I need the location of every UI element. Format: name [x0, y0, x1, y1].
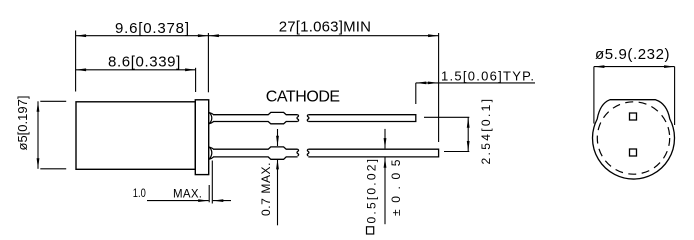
svg-text:1.0: 1.0	[133, 188, 146, 200]
end view: upper lead (square)	[630, 113, 637, 120]
dimension 0.7 MAX (lead kink)	[259, 129, 279, 225]
flange (1.0mm rim)	[195, 100, 208, 175]
svg-text:CATHODE: CATHODE	[266, 89, 340, 106]
end view: dashed body circle ø5	[597, 102, 669, 174]
svg-text:MAX.: MAX.	[173, 189, 202, 201]
dimension 27[1.063]MIN	[208, 19, 438, 38]
svg-text:0.5[0.02]: 0.5[0.02]	[364, 159, 378, 224]
upper lead segment 2 (after break)	[307, 115, 416, 122]
lower lead segment 1	[213, 147, 299, 159]
dimension 1.5[0.06]TYP. (lead tip offset)	[416, 69, 535, 105]
dimension 8.6[0.339]	[76, 53, 196, 71]
svg-text:1.5[0.06]TYP.: 1.5[0.06]TYP.	[441, 69, 534, 84]
LED body (side view, 8.6mm cylinder)	[76, 102, 195, 170]
lower lead exit flare	[209, 147, 214, 159]
lower lead segment 2 (after break)	[307, 149, 438, 157]
dimension 2.54[0.1] (lead pitch)	[424, 99, 493, 165]
end view: flange outline with flat top	[592, 100, 674, 179]
svg-text:2.54[0.1]: 2.54[0.1]	[479, 99, 493, 165]
end view: lower lead (square)	[630, 149, 637, 156]
svg-text:8.6[0.339]: 8.6[0.339]	[108, 53, 180, 70]
extension lines top	[76, 31, 439, 143]
dimension ø5[0.197]	[15, 96, 66, 169]
dimension □0.5[0.02] ±0.05 (lead cross-section)	[364, 129, 403, 234]
upper lead segment 1	[213, 112, 299, 123]
svg-text:ø5[0.197]: ø5[0.197]	[15, 96, 30, 151]
svg-text:ø5.9(.232): ø5.9(.232)	[595, 46, 670, 63]
svg-text:±0.05: ±0.05	[389, 159, 403, 216]
upper lead exit flare	[209, 112, 214, 123]
end view: dimension ø5.9(.232)	[594, 46, 675, 125]
svg-text:0.7 MAX.: 0.7 MAX.	[259, 163, 273, 217]
svg-text:27[1.063]MIN: 27[1.063]MIN	[279, 19, 371, 36]
dimension 9.6[0.378]	[76, 20, 439, 37]
svg-text:9.6[0.378]: 9.6[0.378]	[115, 20, 189, 37]
dimension 1.0 MAX (flange thickness)	[133, 161, 231, 204]
